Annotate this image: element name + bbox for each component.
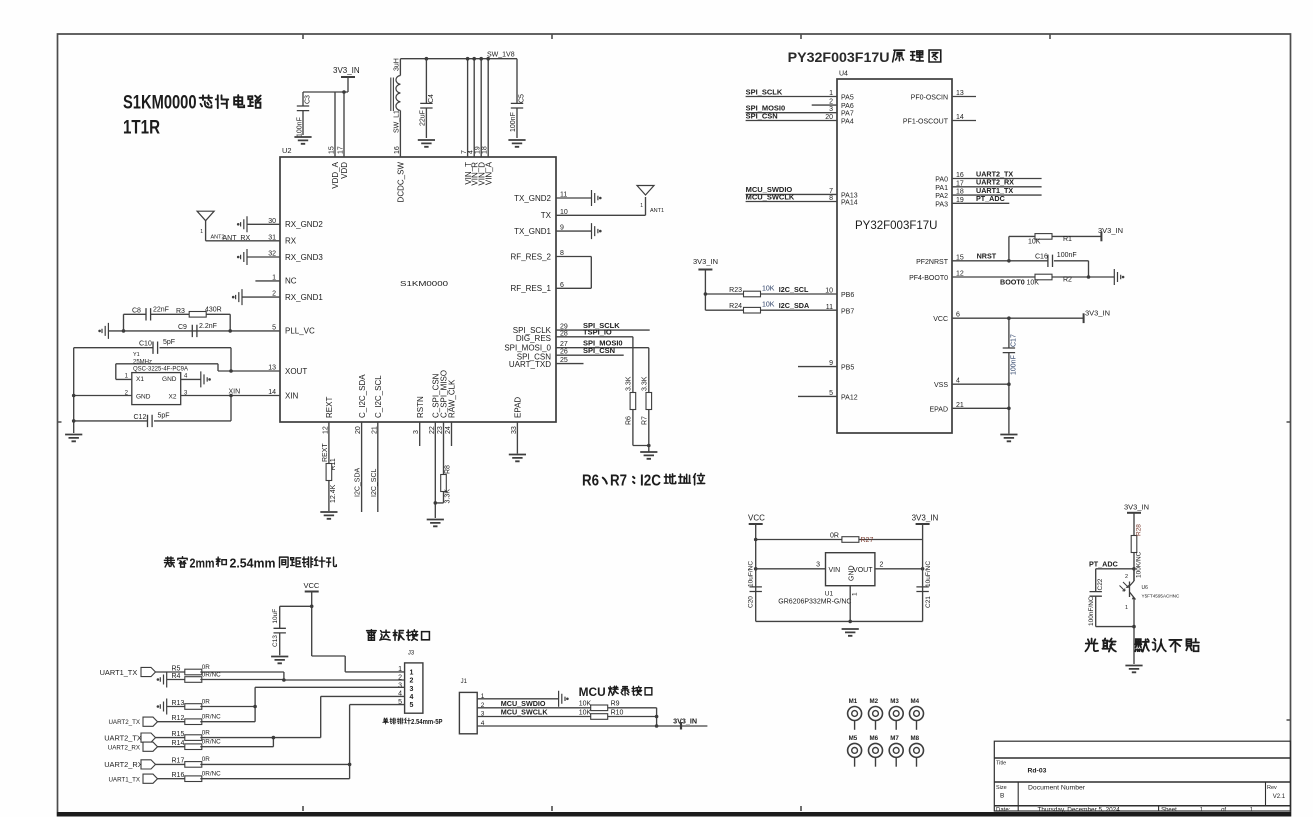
wire SPI_MOSI0 to PA7 [746, 112, 837, 114]
svg-text:PA0: PA0 [935, 177, 948, 184]
wire R6 R7 to ground [633, 410, 649, 453]
svg-text:M5: M5 [849, 735, 858, 742]
wire XOUT to crystal X1 [116, 364, 280, 380]
note text compatible 2mm and 2.54mm header holes [164, 557, 174, 567]
junction PLL left [122, 329, 126, 333]
mounting hole M3 [889, 707, 903, 721]
resistor R3 430R [189, 312, 206, 318]
svg-text:2.54mm: 2.54mm [230, 555, 276, 570]
svg-text:C16: C16 [1035, 254, 1048, 261]
svg-text:1: 1 [640, 203, 643, 209]
ground crystal rail [65, 435, 82, 442]
capacitor C9 [192, 325, 197, 337]
svg-text:XIN: XIN [285, 391, 299, 400]
svg-text:UART2_TX: UART2_TX [108, 719, 140, 726]
resistor R5 0R [185, 669, 202, 675]
ground for C4 [418, 140, 435, 147]
wire J3 pin5 [350, 704, 405, 706]
svg-text:X1: X1 [136, 376, 144, 383]
svg-text:DIG_RES: DIG_RES [516, 334, 551, 343]
wire PLL_VC [108, 330, 280, 332]
ground TX_GND1 pin9 [556, 230, 592, 232]
svg-text:MCU_SWCLK: MCU_SWCLK [746, 192, 795, 201]
wire R12 join to J3 pin3 [200, 687, 255, 721]
ground J1 pin1 [559, 691, 565, 707]
svg-text:100nF: 100nF [510, 112, 517, 132]
svg-text:0R/NC: 0R/NC [202, 671, 221, 678]
wire I2C_SCL net [377, 422, 379, 512]
svg-text:PT_ADC: PT_ADC [1089, 560, 1118, 569]
svg-text:S1KM0000: S1KM0000 [123, 92, 197, 114]
wires VIN_T VIN_R VIN_D VIN_A to rail [468, 59, 489, 157]
wire VOUT [875, 568, 923, 570]
ground PLL filter [102, 323, 108, 339]
svg-text:R6: R6 [582, 473, 599, 490]
resistor R2 10K [1035, 274, 1052, 280]
wire J1 pin1 to ground [477, 698, 558, 700]
svg-text:NC: NC [285, 277, 297, 286]
svg-text:PB7: PB7 [841, 309, 854, 316]
svg-text:R14: R14 [172, 740, 185, 747]
wire SPI_SCLK to PA5 [746, 96, 837, 98]
svg-text:0R: 0R [202, 698, 211, 705]
svg-text:PB6: PB6 [841, 292, 854, 299]
svg-text:MCU_SWDIO: MCU_SWDIO [501, 699, 546, 708]
svg-text:R3: R3 [176, 308, 185, 315]
wire MCU_SWDIO to R9 [477, 707, 656, 709]
wire SW_1V8 rail [400, 58, 517, 60]
svg-text:QSC-3225-4F-PC9A: QSC-3225-4F-PC9A [133, 367, 188, 373]
svg-text:R7: R7 [641, 416, 648, 425]
capacitor C4 [425, 57, 429, 61]
wire 3V3_IN to VDD pins [335, 77, 348, 157]
svg-text:PY32F003F17U: PY32F003F17U [855, 220, 937, 232]
svg-text:PA3: PA3 [935, 201, 948, 208]
note text radar board interface [367, 630, 377, 641]
svg-text:PA12: PA12 [841, 394, 858, 401]
wire crystal left rail [73, 348, 75, 433]
resistor R24 10K [705, 309, 837, 311]
svg-text:Size: Size [996, 785, 1007, 791]
inductor L1 SW_L1 3uH [399, 59, 401, 157]
junction PLL right [228, 329, 232, 333]
svg-text:2: 2 [1125, 574, 1128, 580]
svg-text:C9: C9 [178, 324, 187, 331]
svg-text:U4: U4 [839, 71, 848, 78]
IC U4 PY32F003F17U body [837, 79, 952, 433]
title block [994, 741, 1290, 811]
svg-text:I2C_SDA: I2C_SDA [355, 467, 362, 497]
resistor R8 3.3K [441, 475, 447, 492]
capacitor C8 [146, 308, 151, 320]
svg-text:3V3_IN: 3V3_IN [1085, 309, 1110, 318]
wire VCC to J3 pin1 [312, 592, 405, 672]
svg-text:PA7: PA7 [841, 111, 854, 118]
svg-text:I2C_SCL: I2C_SCL [779, 285, 809, 294]
wire I2C_SDA net [361, 422, 363, 512]
wire RF_RES bracket [556, 257, 591, 289]
wire C8 R3 branch [124, 314, 231, 331]
svg-text:VDD: VDD [340, 162, 349, 179]
svg-text:VSS: VSS [934, 382, 948, 389]
svg-text:0R: 0R [202, 756, 211, 763]
svg-text:EPAD: EPAD [514, 397, 523, 418]
antenna ANT2 [197, 211, 214, 221]
svg-text:U2: U2 [282, 146, 292, 155]
ground for C5 [508, 140, 525, 147]
svg-text:GND: GND [162, 376, 177, 383]
svg-text:PA14: PA14 [841, 200, 858, 207]
svg-text:SPI_MOSI_0: SPI_MOSI_0 [504, 343, 551, 352]
svg-text:Rev: Rev [1267, 785, 1277, 791]
svg-text:RF_RES_2: RF_RES_2 [511, 252, 552, 261]
crystal Y1 box [132, 373, 181, 405]
svg-text:100nF: 100nF [297, 117, 304, 137]
svg-text:of: of [1221, 808, 1226, 814]
wire SPI_MOSI0 net to R7 [556, 348, 649, 393]
svg-text:C21: C21 [925, 596, 932, 608]
wire J3 pin3 [255, 686, 405, 688]
svg-text:R23: R23 [729, 287, 742, 294]
svg-text:UART2_RX: UART2_RX [108, 745, 140, 752]
IC U1 GR6206 body [826, 553, 875, 586]
svg-text:PB5: PB5 [841, 365, 854, 372]
svg-text:2mm: 2mm [190, 555, 215, 570]
wire 3V3_IN to R23 R24 [705, 270, 743, 311]
svg-text:TX: TX [541, 211, 552, 220]
svg-text:V2.1: V2.1 [1273, 794, 1286, 800]
svg-text:C17: C17 [1010, 334, 1017, 347]
svg-text:R12: R12 [172, 715, 185, 722]
svg-text:10K: 10K [579, 709, 592, 716]
svg-text:X2: X2 [169, 393, 177, 400]
svg-text:SW_1V8: SW_1V8 [487, 52, 515, 59]
resistor R11 12.4K [326, 464, 332, 481]
wire EPAD to ground [516, 422, 518, 454]
svg-text:GR6206P332MR-G/NC: GR6206P332MR-G/NC [778, 599, 851, 606]
svg-text:0R: 0R [830, 533, 839, 540]
wire TSPI_IO net to R6 [556, 337, 633, 393]
svg-text:C_I2C_SDA: C_I2C_SDA [358, 374, 367, 418]
svg-text:5pF: 5pF [158, 413, 170, 420]
ground TX_GND2 pin11 [556, 197, 592, 199]
svg-text:3.3K: 3.3K [626, 376, 633, 391]
svg-text:R24: R24 [729, 303, 742, 310]
mounting hole M1 [848, 707, 862, 721]
svg-text:SPI_CSN: SPI_CSN [583, 346, 615, 355]
capacitor C3 [302, 92, 304, 135]
mounting hole M7 [889, 743, 903, 757]
svg-text:VIN_A: VIN_A [484, 161, 493, 185]
svg-text:VOUT: VOUT [853, 567, 873, 574]
svg-text:RX: RX [285, 237, 297, 246]
svg-text:10K: 10K [1027, 280, 1040, 287]
note text single row header 2.54mm-5P [383, 718, 389, 724]
svg-text:MCU: MCU [579, 687, 606, 699]
svg-text:UART1_TX: UART1_TX [108, 777, 140, 784]
wire RX [206, 240, 280, 242]
mounting hole M6 [869, 743, 883, 757]
svg-text:3V3_IN: 3V3_IN [673, 717, 697, 726]
svg-text:R10: R10 [611, 709, 624, 716]
capacitor C16 100nF [1048, 255, 1053, 267]
svg-text:C22: C22 [1097, 578, 1104, 590]
svg-text:3V3_IN: 3V3_IN [693, 257, 718, 266]
svg-text:RF_RES_1: RF_RES_1 [511, 284, 552, 293]
ground pin22 R8 [427, 520, 444, 527]
svg-text:R16: R16 [172, 772, 185, 779]
svg-text:R4: R4 [172, 673, 181, 680]
svg-text:C8: C8 [132, 308, 141, 315]
resistor R1 10K [1035, 234, 1052, 240]
svg-text:MCU_SWCLK: MCU_SWCLK [501, 708, 549, 717]
svg-text:2: 2 [410, 678, 414, 685]
wire MCU_SWCLK to R10 [477, 708, 656, 726]
svg-text:M3: M3 [890, 698, 899, 705]
svg-text:BOOT0: BOOT0 [1000, 278, 1025, 287]
svg-text:PA6: PA6 [841, 103, 854, 110]
wire R14 join [200, 738, 273, 747]
svg-text:TX_GND1: TX_GND1 [514, 227, 551, 236]
wire MCU_SWCLK to PA14 [746, 201, 837, 203]
svg-text:PA4: PA4 [841, 119, 854, 126]
capacitor C10 line [74, 347, 231, 349]
resistor R6 3.3K [630, 393, 636, 410]
ground crystal GND pin4 [181, 378, 201, 380]
svg-text:EPAD: EPAD [929, 406, 948, 413]
svg-text:R9: R9 [611, 701, 620, 708]
svg-text:PLL_VC: PLL_VC [285, 327, 315, 336]
svg-text:U1: U1 [825, 591, 834, 598]
svg-text:0R: 0R [202, 664, 211, 671]
svg-text:1: 1 [410, 669, 414, 676]
svg-text:3: 3 [410, 686, 414, 693]
svg-text:R13: R13 [172, 700, 185, 707]
resistor R12 0R/NC [185, 719, 202, 725]
svg-text:C12: C12 [134, 414, 147, 421]
svg-text:2.54mm-5P: 2.54mm-5P [411, 717, 443, 726]
svg-text:Date:: Date: [996, 808, 1011, 814]
resistor R27 0R [842, 537, 859, 543]
phototransistor U6 [1133, 569, 1135, 581]
svg-text:R5: R5 [172, 665, 181, 672]
svg-text:10K: 10K [762, 302, 775, 309]
resistor R23 10K [761, 293, 838, 295]
wire C_SPI_MISO pin23 to R8 [435, 422, 443, 503]
svg-text:0R: 0R [202, 729, 211, 736]
capacitor C13 10uF [274, 628, 286, 633]
ground U4 [1000, 435, 1017, 442]
svg-text:3V3_IN: 3V3_IN [333, 66, 360, 75]
svg-text:VIN: VIN [829, 567, 841, 574]
svg-text:3.3K: 3.3K [445, 489, 452, 504]
svg-text:J3: J3 [408, 651, 415, 657]
svg-text:SPI_SCLK: SPI_SCLK [746, 87, 783, 96]
svg-text:R27: R27 [861, 537, 874, 544]
connector J3 body [405, 663, 423, 713]
resistor R4 0R/NC [185, 677, 202, 683]
svg-text:RX_GND2: RX_GND2 [285, 220, 323, 229]
svg-text:PA1: PA1 [935, 185, 948, 192]
wire RSTN stub [419, 422, 421, 446]
wire J3 pin4 [321, 695, 405, 697]
svg-text:100nF/NC: 100nF/NC [1088, 596, 1095, 626]
svg-text:VDD_A: VDD_A [331, 161, 340, 188]
svg-text:0R/NC: 0R/NC [202, 738, 221, 745]
wire photo sensor emitter to ground [1096, 627, 1134, 664]
wire PA6 stub [812, 104, 837, 106]
svg-text:C10: C10 [139, 341, 152, 348]
svg-text:PF1-OSCOUT: PF1-OSCOUT [903, 119, 949, 126]
wire SPI_SCLK net [556, 329, 650, 331]
svg-text:12.4K: 12.4K [330, 484, 337, 503]
wire J1 pin4 3V3_IN [477, 725, 707, 727]
svg-text:UART1_TX: UART1_TX [100, 668, 138, 677]
svg-text:1: 1 [852, 592, 859, 596]
capacitor C12 line [74, 420, 231, 422]
svg-text:R2: R2 [1063, 277, 1072, 284]
wire SPI_CSN net [556, 354, 624, 356]
svg-text:RSTN: RSTN [416, 396, 425, 418]
svg-text:430R: 430R [205, 307, 222, 314]
svg-text:UART_TXD: UART_TXD [509, 360, 551, 369]
svg-text:1: 1 [1125, 605, 1128, 611]
svg-text:R1: R1 [1063, 236, 1072, 243]
svg-text:10K: 10K [579, 701, 592, 708]
svg-text:3V3_IN: 3V3_IN [912, 513, 939, 522]
svg-text:XOUT: XOUT [285, 367, 307, 376]
svg-text:25MHz: 25MHz [133, 360, 152, 366]
svg-text:TSPI_IO: TSPI_IO [583, 328, 612, 337]
mounting hole M4 [910, 707, 924, 721]
wire crystal GND pin2 to rail [74, 395, 132, 397]
wire R17 to J3 pin5 [200, 705, 349, 765]
svg-text:C_I2C_SCL: C_I2C_SCL [374, 375, 383, 418]
svg-text:PA2: PA2 [935, 193, 948, 200]
wire EPAD U4 to ground rail [952, 407, 1009, 409]
capacitor C5 [516, 59, 518, 138]
svg-text:TX_GND2: TX_GND2 [514, 194, 551, 203]
svg-text:PF0-OSCIN: PF0-OSCIN [911, 95, 948, 102]
capacitor C22 100nF/NC [1095, 569, 1097, 627]
mounting hole M5 [848, 743, 862, 757]
IC U2 S1KM0000 body [280, 157, 556, 422]
wire U1 ground rail [756, 586, 923, 622]
svg-text:R28: R28 [1136, 524, 1143, 536]
svg-text:4: 4 [410, 694, 414, 701]
svg-text:B: B [1000, 793, 1004, 800]
svg-text:U6: U6 [1142, 585, 1149, 591]
connector J1 body [459, 692, 477, 733]
svg-text:2.2nF: 2.2nF [199, 323, 217, 330]
svg-text:Y5FT4595ACHNC: Y5FT4595ACHNC [1142, 594, 1180, 599]
svg-text:M1: M1 [849, 698, 858, 705]
svg-text:100K/NC: 100K/NC [1136, 551, 1143, 578]
svg-text:Sheet: Sheet [1161, 808, 1177, 814]
svg-text:0R/NC: 0R/NC [202, 713, 221, 720]
wire TX to antenna ANT1 [556, 197, 646, 215]
svg-text:PA5: PA5 [841, 95, 854, 102]
wire PT_ADC node [1096, 568, 1134, 570]
svg-text:I2C_SCL: I2C_SCL [371, 468, 378, 497]
wire VCC branch to C13 [280, 606, 312, 655]
svg-text:22uF: 22uF [420, 110, 427, 126]
wire RAW_CLK stub [451, 422, 453, 446]
svg-text:3: 3 [816, 562, 820, 569]
ground for C3 [294, 137, 311, 144]
wire UART1_TX net [952, 194, 1042, 196]
wire PF1-OSCOUT stub [952, 120, 976, 122]
wire R5 R4 join to J3 pin2 [200, 672, 284, 680]
svg-text:C3: C3 [305, 95, 312, 104]
svg-text:RX_GND1: RX_GND1 [285, 293, 323, 302]
svg-text:C4: C4 [428, 94, 435, 103]
svg-text:R6: R6 [626, 416, 633, 425]
svg-text:C13: C13 [272, 635, 279, 647]
antenna ANT1 [637, 186, 654, 196]
svg-text:GND: GND [136, 393, 151, 400]
svg-text:Title: Title [996, 761, 1006, 767]
wire VSS to ground rail [952, 383, 1009, 385]
svg-text:10uF: 10uF [272, 609, 279, 624]
ground U1 [842, 629, 859, 636]
svg-text:100nF: 100nF [1010, 355, 1017, 375]
svg-text:R15: R15 [172, 731, 185, 738]
svg-text:NRST: NRST [977, 252, 997, 261]
svg-text:1T1R: 1T1R [123, 117, 160, 139]
svg-text:VCC: VCC [933, 316, 948, 323]
svg-text:M6: M6 [870, 735, 879, 742]
svg-text:Document Number: Document Number [1028, 785, 1086, 792]
svg-text:PF4-BOOT0: PF4-BOOT0 [909, 275, 948, 282]
svg-text:22nF: 22nF [153, 307, 169, 314]
wire UART2_RX net [952, 186, 1042, 188]
svg-text:1: 1 [398, 666, 402, 673]
resistor R10 10K [591, 714, 608, 720]
svg-text:3V3_IN: 3V3_IN [1124, 503, 1149, 512]
svg-text:Thursday, December 5, 2024: Thursday, December 5, 2024 [1038, 807, 1121, 814]
svg-text:C20: C20 [748, 596, 755, 608]
svg-text:0R/NC: 0R/NC [202, 770, 221, 777]
svg-text:REXT: REXT [322, 443, 329, 462]
wire UART_TXD stub [556, 363, 584, 365]
capacitor C20 10uF/NC [750, 587, 762, 592]
svg-text:PY32F003F17U: PY32F003F17U [788, 49, 890, 65]
ground RX_GND1 pin2 [242, 296, 280, 298]
junction NRST branch [1007, 259, 1011, 263]
svg-text:M7: M7 [890, 735, 899, 742]
wire VCC to 3V3_IN [952, 317, 1084, 319]
svg-text:SPI_CSN: SPI_CSN [746, 111, 778, 120]
wire SPI_CSN to PA4 [746, 120, 837, 122]
svg-text:I2C_SDA: I2C_SDA [779, 301, 809, 310]
wire NRST [952, 261, 1089, 277]
wire PT_ADC net [952, 202, 1009, 204]
wire R16 join [200, 764, 349, 778]
wire BOOT0 to R2 and ground [952, 276, 1114, 278]
mounting hole M8 [910, 743, 924, 757]
svg-text:VCC: VCC [748, 514, 765, 523]
resistor R17 0R [185, 762, 202, 768]
svg-text:Y1: Y1 [133, 352, 140, 358]
svg-text:SW_L1: SW_L1 [394, 110, 401, 133]
wire VCC rail to R27 [756, 524, 923, 621]
ground EPAD [509, 455, 526, 462]
svg-text:PF2NRST: PF2NRST [916, 259, 949, 266]
ground R11 [320, 512, 337, 519]
resistor R7 3.3K [646, 393, 652, 410]
note text photosensitive default not fitted [1085, 638, 1098, 651]
